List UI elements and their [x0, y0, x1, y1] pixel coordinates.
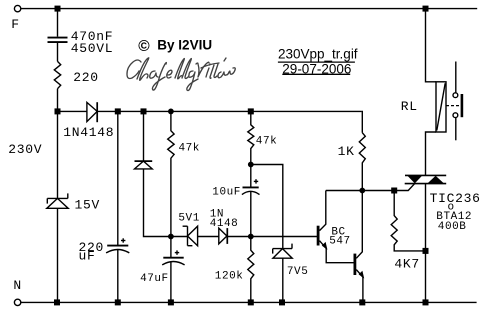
svg-text:450VL: 450VL	[71, 41, 114, 56]
wire 7V5 branch	[251, 165, 283, 249]
svg-text:By I2VIU: By I2VIU	[157, 38, 212, 53]
wire	[426, 132, 437, 175]
junction bottom x171	[168, 299, 174, 305]
resistor R5 1K	[359, 133, 365, 191]
wire	[198, 236, 219, 238]
triac U1 left triangle	[408, 176, 422, 183]
wire	[57, 43, 59, 62]
svg-text:N: N	[13, 278, 22, 293]
switch contact top	[453, 93, 458, 98]
transistor Q2 base bar	[354, 254, 357, 275]
node dot x251 y164	[248, 162, 254, 168]
resistor R6 4K7	[391, 191, 425, 251]
wire relay drop	[426, 9, 437, 82]
junction mid x251	[248, 108, 254, 114]
wire	[57, 9, 59, 37]
wire triac main	[425, 184, 427, 303]
resistor R4 120k	[248, 237, 254, 303]
svg-text:400B: 400B	[438, 221, 467, 233]
relay coil diagonal	[437, 83, 445, 130]
junction bottom x57	[54, 299, 60, 305]
svg-text:15V: 15V	[75, 197, 101, 212]
junction bottom x282	[279, 299, 285, 305]
transistor Q2 emitter arrow	[359, 271, 365, 279]
triac U1 bottom bar	[405, 183, 447, 185]
svg-text:230Vpp_tr.gif: 230Vpp_tr.gif	[278, 47, 358, 62]
transistor Q1 emitter arrow	[322, 242, 328, 250]
wire	[57, 208, 59, 302]
wire mid rail left	[58, 110, 87, 112]
junction bottom x362	[359, 299, 365, 305]
svg-text:47uF: 47uF	[140, 273, 169, 285]
transistor Q1 emitter	[320, 241, 327, 249]
wire	[250, 192, 252, 237]
svg-text:TIC236: TIC236	[430, 191, 481, 206]
title underline	[278, 61, 355, 63]
relay mechanical link dashed	[446, 105, 460, 107]
node dot x251 y236	[248, 234, 254, 240]
svg-text:5V1: 5V1	[178, 212, 199, 224]
wire 220uF branch	[117, 111, 119, 245]
relay RL coil box	[436, 82, 446, 132]
switch contact bottom	[453, 113, 458, 118]
date underline	[282, 73, 350, 75]
wire emitter to Q2 base	[326, 248, 353, 262]
wire base link	[227, 236, 317, 238]
wire	[170, 262, 172, 303]
capacitor C3 47uF	[162, 250, 184, 265]
svg-text:F: F	[11, 17, 20, 32]
svg-text:©: ©	[138, 38, 150, 55]
wire 5V1 link	[171, 236, 188, 238]
wire	[117, 250, 119, 303]
svg-text:uF: uF	[79, 248, 96, 263]
terminal F	[14, 5, 20, 11]
transistor Q2 collector	[356, 191, 362, 259]
diode D1 1N4148	[87, 102, 97, 122]
wire gate line	[326, 184, 415, 191]
wire	[57, 89, 59, 112]
resistor R3 47k	[248, 111, 254, 164]
diode D5 1N4148	[219, 228, 228, 244]
wire vertical diode branch	[143, 111, 145, 161]
node dot mid x171	[168, 109, 174, 115]
switch actuator bar	[461, 94, 464, 117]
svg-text:47k: 47k	[179, 143, 200, 155]
svg-text:547: 547	[329, 236, 350, 248]
junction bottom x425	[423, 299, 429, 305]
wire	[250, 165, 252, 188]
zener D4 5V1	[183, 226, 198, 246]
svg-text:RL: RL	[401, 99, 418, 114]
wire	[282, 258, 284, 302]
svg-text:220: 220	[73, 70, 99, 85]
capacitor C4 10uF	[242, 179, 260, 194]
svg-text:10uF: 10uF	[212, 187, 241, 199]
capacitor C2 220uF	[106, 238, 129, 253]
triac U1 top bar	[405, 174, 446, 176]
svg-text:47k: 47k	[256, 136, 277, 148]
junction bottom x251	[248, 299, 254, 305]
node dot x362 y190	[359, 188, 365, 194]
junction top-right	[423, 6, 429, 12]
svg-text:230V: 230V	[8, 142, 42, 157]
diode D2	[135, 161, 153, 169]
transistor Q1 collector	[320, 191, 326, 231]
svg-text:1N4148: 1N4148	[63, 125, 114, 140]
junction top-left	[55, 6, 61, 12]
junction x425 y251	[423, 248, 429, 254]
zener D3 15V	[47, 193, 68, 208]
wire switch stub top	[455, 62, 457, 93]
transistor Q2 emitter	[356, 270, 363, 278]
wire top rail	[21, 8, 477, 10]
junction x394 y190	[391, 188, 397, 194]
wire	[170, 237, 172, 258]
junction mid rail x57	[55, 108, 61, 114]
junction mid x118	[115, 108, 121, 114]
svg-text:4K7: 4K7	[394, 256, 420, 271]
wire 1K branch corner	[361, 111, 364, 132]
wire switch stub bottom	[455, 118, 457, 141]
zener D6 7V5	[273, 244, 293, 259]
signature Chapelli Vittorio	[127, 58, 235, 91]
node dot x171 y236	[168, 234, 174, 240]
svg-text:4148: 4148	[210, 218, 239, 230]
wire	[144, 169, 171, 237]
resistor R2 47k	[168, 111, 174, 236]
transistor Q1 BC547 base bar	[317, 226, 320, 246]
wire bottom rail	[21, 301, 477, 303]
junction mid x143	[141, 108, 147, 114]
capacitor C1 470nF 450VL	[48, 38, 68, 43]
svg-text:120k: 120k	[215, 271, 244, 283]
wire mid rail right	[97, 110, 362, 112]
triac U1 right triangle	[428, 176, 444, 183]
wire	[362, 277, 364, 302]
resistor R1 220	[54, 61, 60, 88]
junction bottom x118	[115, 299, 121, 305]
svg-text:7V5: 7V5	[287, 266, 308, 278]
svg-text:1K: 1K	[338, 144, 355, 159]
wire left rail down	[57, 111, 59, 198]
terminal N	[14, 299, 20, 305]
